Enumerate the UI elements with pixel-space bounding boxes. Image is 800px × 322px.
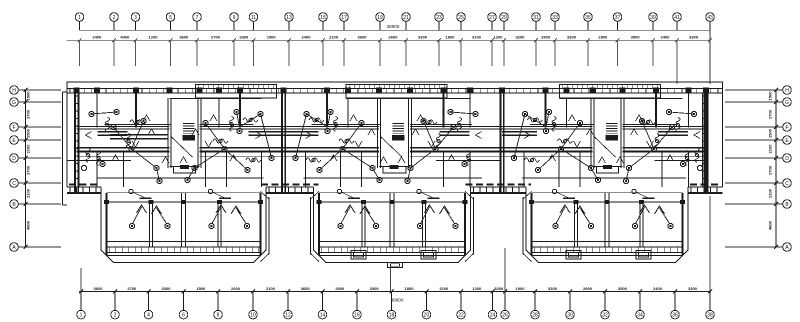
- ceiling lamp: [405, 178, 410, 183]
- svg-text:2: 2: [113, 15, 116, 21]
- svg-text:29: 29: [501, 15, 507, 21]
- svg-text:36: 36: [672, 312, 678, 318]
- dimension tick: [112, 38, 116, 42]
- dimension tick: [490, 38, 494, 42]
- svg-text:1200: 1200: [149, 35, 159, 40]
- svg-text:5: 5: [169, 15, 172, 21]
- stair run line: [595, 137, 616, 157]
- ceiling fan symbol: [96, 151, 100, 166]
- grid line: [113, 40, 115, 66]
- svg-text:3: 3: [134, 15, 137, 21]
- entry stoop: [383, 167, 406, 174]
- dimension tick: [708, 290, 712, 294]
- bedroom wall: [77, 125, 170, 127]
- svg-text:2900: 2900: [583, 286, 593, 291]
- dimension tick: [708, 38, 712, 42]
- dimension tick: [78, 38, 82, 42]
- stair landing: [393, 136, 405, 141]
- svg-text:3600: 3600: [179, 35, 189, 40]
- north balcony: [196, 84, 277, 98]
- distribution box AL: [351, 251, 366, 259]
- svg-text:13: 13: [286, 15, 292, 21]
- grid bubble 3 top: [131, 13, 140, 22]
- svg-text:4000: 4000: [120, 35, 130, 40]
- grid line: [79, 40, 81, 66]
- grid bubble 43 top: [706, 13, 715, 22]
- bay step line: [319, 191, 465, 193]
- svg-text:21: 21: [403, 15, 409, 21]
- wiring: [261, 114, 272, 158]
- switch chevron: [549, 155, 556, 161]
- dimension tick: [616, 38, 620, 42]
- grid bubble 4 bottom: [148, 292, 150, 311]
- lower partition: [97, 177, 264, 179]
- ceiling lamp: [245, 167, 250, 172]
- svg-text:9: 9: [233, 15, 236, 21]
- ceiling lamp: [448, 109, 453, 114]
- grid bubble 28 bottom: [534, 292, 536, 311]
- ceiling fan symbol: [246, 158, 261, 162]
- dimension tick: [195, 38, 199, 42]
- wiring: [525, 114, 546, 127]
- svg-text:1200: 1200: [494, 35, 504, 40]
- dimension tick: [113, 290, 117, 294]
- lower partition: [304, 177, 483, 179]
- bay fan/lamp group: [129, 189, 170, 228]
- kitchen wall band: [502, 131, 537, 133]
- svg-text:2900: 2900: [598, 35, 608, 40]
- svg-text:30: 30: [567, 312, 573, 318]
- svg-text:1500: 1500: [196, 286, 206, 291]
- switch chevron: [524, 132, 530, 139]
- svg-text:3200: 3200: [494, 286, 504, 291]
- wiring: [157, 168, 160, 181]
- bedroom wall: [410, 125, 502, 127]
- ceiling fan symbol: [339, 139, 354, 143]
- wiring: [561, 123, 580, 149]
- grid bubble 19 top: [376, 13, 385, 22]
- svg-text:38900: 38900: [391, 298, 404, 303]
- bay side wall right: [464, 193, 466, 255]
- wiring: [328, 112, 331, 127]
- ceiling fan symbol: [130, 120, 145, 124]
- svg-text:23: 23: [436, 15, 442, 21]
- switch chevron: [132, 141, 139, 147]
- ceiling fan symbol: [422, 120, 437, 124]
- dimension tick: [638, 290, 642, 294]
- ceiling lamp: [370, 165, 375, 170]
- svg-text:D: D: [12, 156, 16, 162]
- corridor secondary wall: [502, 155, 593, 157]
- grid line: [343, 40, 345, 66]
- svg-text:3100: 3100: [439, 286, 449, 291]
- ceiling fan symbol: [436, 134, 440, 149]
- grid bubble 11 top: [249, 13, 258, 22]
- grid bubble 10 bottom: [252, 292, 254, 311]
- svg-text:G: G: [785, 100, 789, 106]
- stair hall left wall: [167, 98, 169, 168]
- grid line: [460, 40, 462, 66]
- svg-text:1500: 1500: [267, 35, 277, 40]
- ceiling lamp: [433, 146, 438, 151]
- svg-text:1800: 1800: [405, 286, 415, 291]
- switch chevron: [380, 157, 387, 163]
- stair hall right wall: [408, 98, 410, 168]
- rear room wall: [436, 160, 500, 162]
- interior wall: [469, 88, 471, 128]
- interior wall: [347, 98, 349, 127]
- switch chevron: [112, 155, 119, 161]
- wiring: [114, 127, 132, 149]
- switch chevron: [417, 115, 424, 121]
- svg-text:22: 22: [458, 312, 464, 318]
- wiring: [132, 149, 157, 168]
- switch chevron: [587, 129, 594, 135]
- bay parapet line: [531, 254, 683, 256]
- ceiling lamp: [269, 155, 274, 160]
- svg-text:2: 2: [114, 312, 117, 318]
- grid bubble 2 bottom: [114, 292, 116, 311]
- ceiling lamp: [222, 146, 227, 151]
- ceiling lamp: [626, 165, 631, 170]
- bath wall band: [440, 131, 470, 133]
- switch chevron: [192, 129, 199, 135]
- ceiling lamp: [535, 167, 540, 172]
- dimension tick: [502, 38, 506, 42]
- unit module 3: [499, 84, 709, 192]
- bay partition center: [604, 193, 606, 247]
- wiring: [92, 112, 117, 114]
- svg-text:1: 1: [80, 312, 83, 318]
- wiring: [373, 168, 380, 180]
- entry door mark: [390, 165, 398, 169]
- svg-text:33: 33: [552, 15, 558, 21]
- ceiling lamp: [651, 146, 656, 151]
- svg-text:3300: 3300: [548, 286, 558, 291]
- grid bubble 38 bottom: [709, 292, 711, 311]
- svg-text:2700: 2700: [127, 286, 137, 291]
- svg-text:11: 11: [251, 15, 256, 21]
- ceiling fan symbol: [676, 118, 680, 133]
- grid bubble 5 top: [166, 13, 175, 22]
- svg-text:2400: 2400: [661, 35, 671, 40]
- interior wall: [579, 152, 581, 188]
- grid bubble 9 top: [230, 13, 239, 22]
- left dimension line: [25, 90, 27, 247]
- wiring: [195, 149, 225, 168]
- dimension tick: [673, 290, 677, 294]
- svg-text:1900: 1900: [516, 286, 526, 291]
- grid line: [135, 40, 137, 66]
- bay top wall: [319, 201, 465, 203]
- dimension tick: [459, 290, 463, 294]
- ceiling lamp: [473, 111, 478, 116]
- courtyard walls: [473, 197, 475, 255]
- svg-text:38: 38: [707, 312, 713, 318]
- ceiling fan symbol: [655, 134, 659, 149]
- wiring: [654, 127, 672, 149]
- distribution box AL: [566, 251, 581, 259]
- grid bubble H right: [783, 86, 792, 95]
- svg-text:3600: 3600: [358, 35, 368, 40]
- switch chevron: [143, 115, 150, 121]
- bay partition right: [422, 203, 424, 247]
- ceiling lamp: [111, 124, 116, 129]
- wiring: [188, 168, 195, 180]
- ceiling lamp: [293, 155, 298, 160]
- balcony rail: [532, 241, 682, 243]
- utility wall band: [110, 134, 168, 136]
- interior wall: [361, 152, 363, 188]
- switch chevron: [86, 132, 92, 139]
- kitchen wall band: [284, 131, 319, 133]
- stair hall left wall: [590, 98, 592, 168]
- leader line right: [709, 196, 711, 292]
- wiring: [240, 114, 261, 127]
- dimension tick: [252, 38, 256, 42]
- ceiling lamp: [89, 111, 94, 116]
- svg-text:3300: 3300: [567, 35, 577, 40]
- ceiling fan symbol: [333, 117, 337, 132]
- dimension tick: [147, 290, 151, 294]
- wiring: [436, 127, 454, 149]
- grid bubble D left: [10, 154, 19, 163]
- svg-text:35: 35: [585, 15, 591, 21]
- switch chevron: [256, 132, 262, 139]
- bottom dimension line and grid bubbles: [77, 196, 715, 319]
- grid line: [253, 40, 255, 66]
- grid bubble 15 top: [319, 13, 328, 22]
- ceiling fan symbol: [552, 117, 556, 132]
- wiring: [343, 149, 373, 168]
- stair treads: [606, 124, 618, 136]
- interior wall: [96, 152, 98, 188]
- party wall right: [703, 88, 705, 192]
- ceiling lamp: [595, 177, 600, 182]
- grid bubble B right: [783, 200, 792, 209]
- bay side wall left: [106, 193, 108, 255]
- ceiling lamp: [421, 118, 426, 123]
- grid bubble 26 bottom: [504, 292, 506, 311]
- ceiling lamp: [666, 109, 671, 114]
- interior wall: [239, 88, 241, 128]
- bay top wall: [107, 201, 261, 203]
- grid bubble F right: [783, 123, 792, 132]
- dimension tick: [437, 38, 441, 42]
- grid bubble 41 top: [673, 13, 682, 22]
- grid line: [405, 40, 407, 66]
- svg-text:2700: 2700: [26, 109, 31, 119]
- bay parapet line: [106, 254, 261, 256]
- grid bubble 20 bottom: [426, 292, 428, 311]
- grid bubble 25 top: [457, 13, 466, 22]
- bath wall band: [658, 131, 688, 133]
- ceiling lamp: [185, 177, 190, 182]
- switch chevron: [306, 132, 312, 139]
- right dimension line: [775, 90, 777, 247]
- dimension tick: [169, 38, 173, 42]
- north balcony: [346, 84, 447, 98]
- grid bubble C left: [10, 179, 19, 188]
- ceiling fan symbol: [86, 148, 90, 163]
- svg-text:3600: 3600: [301, 286, 311, 291]
- dimension tick: [378, 38, 382, 42]
- svg-text:3500: 3500: [618, 286, 628, 291]
- switch chevron: [428, 141, 435, 147]
- grid bubble 33 top: [551, 13, 560, 22]
- bay window sill inner: [319, 251, 466, 253]
- svg-text:2400: 2400: [231, 286, 241, 291]
- corridor wall north: [502, 147, 593, 149]
- svg-text:2700: 2700: [26, 165, 31, 175]
- grid line: [503, 40, 505, 66]
- dimension tick: [603, 290, 607, 294]
- wiring: [237, 112, 240, 127]
- svg-text:3200: 3200: [516, 35, 526, 40]
- dimension tick: [134, 38, 138, 42]
- svg-text:F: F: [12, 125, 15, 131]
- dimension tick: [79, 290, 83, 294]
- ceiling fan symbol: [243, 118, 258, 122]
- bay fan/lamp group: [552, 189, 593, 228]
- switch chevron: [355, 141, 362, 147]
- balcony rail: [107, 241, 260, 243]
- interior wall: [655, 88, 657, 128]
- wiring: [296, 114, 307, 158]
- svg-text:G: G: [12, 100, 16, 106]
- east end room lamp: [697, 165, 702, 170]
- stair hall right wall: [620, 98, 622, 168]
- window piers: [74, 88, 287, 94]
- grid line: [196, 40, 198, 66]
- ceiling lamp: [623, 178, 628, 183]
- svg-text:6: 6: [182, 312, 185, 318]
- bay top wall piers: [529, 200, 685, 204]
- grid line: [709, 40, 711, 66]
- corridor wall south: [284, 151, 380, 153]
- grid bubble 23 top: [435, 13, 444, 22]
- svg-text:2100: 2100: [266, 286, 276, 291]
- svg-text:18: 18: [389, 312, 395, 318]
- dimension tick: [390, 290, 394, 294]
- svg-text:C: C: [785, 181, 789, 187]
- dimension tick: [251, 290, 255, 294]
- switch chevron: [205, 141, 212, 147]
- svg-text:H: H: [785, 88, 789, 94]
- stair landing: [606, 136, 618, 141]
- bay top wall piers: [104, 200, 263, 204]
- bedroom wall: [623, 125, 707, 127]
- dimension tick: [182, 290, 186, 294]
- entry stoop: [597, 167, 619, 174]
- grid bubble 27 top: [488, 13, 497, 22]
- ceiling lamp: [546, 109, 551, 114]
- east wall thick: [705, 88, 707, 192]
- switch chevron: [230, 155, 237, 161]
- right grid bubbles: [725, 86, 791, 252]
- svg-text:F: F: [785, 125, 788, 131]
- interior wall: [226, 152, 228, 188]
- ceiling fan symbol: [695, 148, 699, 163]
- grid bubble F left: [10, 123, 19, 132]
- grid bubble C right: [783, 179, 792, 188]
- top exterior wall with windows: [67, 87, 723, 89]
- switch chevron: [636, 115, 643, 121]
- svg-text:1500: 1500: [768, 128, 773, 138]
- south bay 1: [104, 189, 263, 255]
- svg-text:28: 28: [532, 312, 538, 318]
- interior wall: [523, 152, 525, 188]
- svg-text:1500: 1500: [26, 91, 31, 101]
- party wall right: [499, 88, 501, 192]
- bay side wall right: [260, 193, 262, 255]
- ceiling lamp: [639, 118, 644, 123]
- svg-text:2100: 2100: [768, 144, 773, 154]
- svg-text:1500: 1500: [26, 128, 31, 138]
- ceiling fan symbol: [466, 151, 470, 166]
- wiring: [561, 149, 591, 168]
- ceiling lamp: [328, 109, 333, 114]
- entry door mark: [604, 165, 612, 169]
- ceiling lamp: [258, 111, 263, 116]
- grid line 43 extended: [709, 30, 711, 84]
- stair landing: [183, 136, 195, 141]
- svg-text:4800: 4800: [26, 220, 31, 230]
- grid line: [554, 40, 556, 66]
- svg-text:38900: 38900: [387, 24, 400, 29]
- corridor wall north: [284, 147, 380, 149]
- bay window sill outer: [531, 246, 683, 248]
- interior wall: [558, 152, 560, 188]
- grid bubble 31 top: [532, 13, 541, 22]
- left grid bubbles: [10, 86, 61, 252]
- svg-text:3300: 3300: [162, 286, 172, 291]
- interior wall: [326, 88, 328, 128]
- wiring: [642, 121, 654, 149]
- ceiling lamp: [408, 165, 413, 170]
- stair hall bottom wall: [593, 166, 623, 168]
- svg-text:2700: 2700: [768, 109, 773, 119]
- wiring: [626, 168, 629, 181]
- bay2 entrance step: [388, 263, 403, 268]
- svg-text:20: 20: [424, 312, 430, 318]
- bay partition center: [389, 193, 391, 247]
- interior wall: [340, 152, 342, 188]
- svg-text:8: 8: [217, 312, 220, 318]
- svg-text:2400: 2400: [302, 35, 312, 40]
- ceiling fan symbol: [309, 118, 324, 122]
- dimension tick: [533, 290, 537, 294]
- ceiling fan symbol: [105, 118, 109, 133]
- wiring: [132, 121, 144, 149]
- bottom envelope with bays: [67, 187, 723, 263]
- stair hall bottom wall: [379, 166, 410, 168]
- svg-text:3300: 3300: [239, 35, 249, 40]
- grid bubble 2 top: [110, 13, 119, 22]
- svg-text:26: 26: [502, 312, 508, 318]
- building outer envelope: [67, 82, 723, 187]
- ceiling fan symbol: [306, 158, 321, 162]
- grid bubble 17 top: [340, 13, 349, 22]
- grid bubble 29 top: [500, 13, 509, 22]
- svg-text:16: 16: [354, 312, 360, 318]
- grid line: [535, 40, 537, 66]
- courtyard corner miters: [261, 192, 270, 200]
- corridor wall south: [77, 151, 170, 153]
- svg-text:3300: 3300: [418, 35, 428, 40]
- ceiling fan symbol: [641, 120, 656, 124]
- party wall left: [281, 88, 283, 192]
